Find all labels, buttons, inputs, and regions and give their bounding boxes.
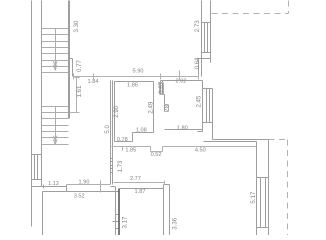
svg-text:1.12: 1.12 [48,181,59,187]
svg-text:1.08: 1.08 [136,128,147,134]
svg-text:0.52: 0.52 [151,152,162,158]
svg-text:1.87: 1.87 [135,189,146,195]
svg-text:1.80: 1.80 [177,125,188,131]
svg-text:2.02: 2.02 [176,79,187,85]
svg-text:5.90: 5.90 [133,69,144,75]
svg-text:78: 78 [164,104,171,111]
svg-text:3.17: 3.17 [122,216,129,228]
svg-text:2.45: 2.45 [195,95,202,107]
svg-text:1.61: 1.61 [76,85,83,97]
svg-text:2.90: 2.90 [113,105,120,117]
svg-text:2.73: 2.73 [194,20,201,32]
svg-text:3.36: 3.36 [171,217,178,229]
svg-text:0.67: 0.67 [158,81,165,93]
svg-text:1.73: 1.73 [117,160,124,172]
svg-text:5.0: 5.0 [104,125,111,134]
svg-text:0.64: 0.64 [194,57,201,69]
svg-text:1.85: 1.85 [125,147,136,153]
svg-text:1.84: 1.84 [88,79,99,85]
svg-text:0.77: 0.77 [76,59,83,71]
svg-text:2.49: 2.49 [148,101,155,113]
svg-text:1.86: 1.86 [127,83,138,89]
svg-text:3.52: 3.52 [74,193,85,199]
svg-text:5.17: 5.17 [250,191,257,203]
svg-text:0.78: 0.78 [117,137,128,143]
svg-text:1.90: 1.90 [79,180,90,186]
svg-text:4.50: 4.50 [195,147,206,153]
svg-text:2.77: 2.77 [130,176,141,182]
svg-text:3.30: 3.30 [73,20,80,32]
